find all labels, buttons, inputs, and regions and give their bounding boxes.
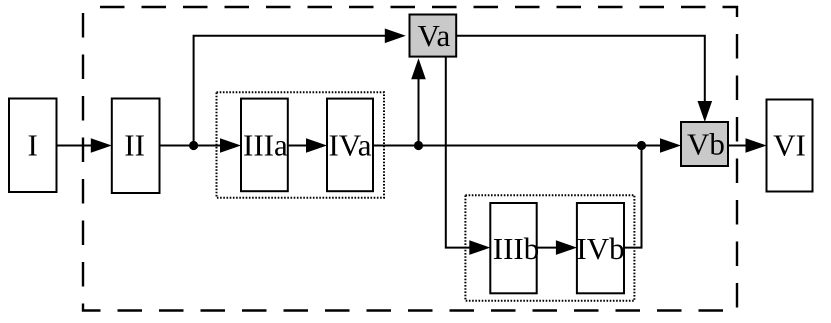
block Va (gray): [410, 15, 457, 57]
svg-text:IVa: IVa: [328, 128, 371, 163]
subsystem a boundary (dotted): [217, 92, 385, 197]
svg-text:Vb: Vb: [687, 126, 725, 161]
wire I to II: [57, 138, 112, 153]
wire II to IIIa: [160, 138, 242, 153]
node B junction dot: [414, 141, 423, 150]
svg-text:II: II: [124, 128, 145, 163]
svg-text:I: I: [28, 128, 38, 163]
node C junction dot: [637, 141, 646, 150]
wire Va bottom down and right into IIIb: [446, 57, 491, 255]
subsystem b boundary (dotted): [465, 195, 634, 301]
svg-text:VI: VI: [773, 128, 806, 163]
block IIIa: [241, 99, 288, 192]
block VI: [767, 100, 813, 192]
wire IVb right and up to node C: [624, 146, 642, 248]
wire IIIb to IVb: [537, 240, 577, 255]
wire branch from node A up and right into Va: [194, 29, 406, 146]
wire Vb to VI: [728, 138, 767, 153]
block IVb: [576, 203, 624, 293]
system boundary (dashed): [83, 7, 737, 311]
wire Va right, down into Vb top: [456, 36, 712, 122]
block II: [112, 99, 160, 194]
svg-text:IIIb: IIIb: [493, 231, 539, 266]
wire node B up into Va bottom: [411, 58, 426, 145]
block IIIb: [490, 203, 539, 293]
block I: [9, 99, 57, 193]
node A junction dot: [189, 141, 198, 150]
svg-text:IVb: IVb: [576, 231, 624, 266]
block IVa: [327, 99, 373, 192]
block Vb (gray): [681, 122, 728, 166]
wire IVa to Vb: [373, 138, 681, 153]
svg-text:Va: Va: [418, 18, 451, 53]
svg-text:IIIa: IIIa: [243, 128, 288, 163]
wire IIIa to IVa: [288, 138, 327, 153]
